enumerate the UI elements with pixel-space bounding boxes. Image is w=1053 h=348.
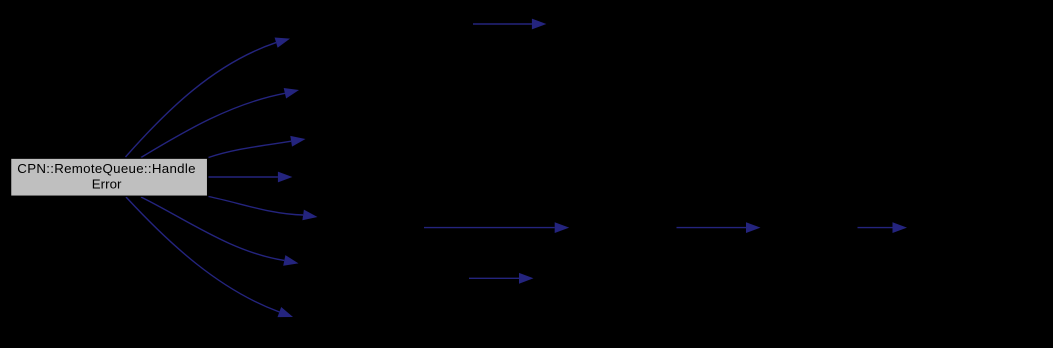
arrowhead S4 (893, 222, 908, 233)
arrowhead E6 (283, 255, 298, 266)
arrowhead E1 (275, 38, 290, 48)
arrowhead S5 (519, 273, 534, 284)
edge S5 line (469, 277, 519, 279)
node box CPN::RemoteQueue::HandleError (11, 158, 208, 196)
edge E2 curve (141, 93, 285, 157)
arrowhead S3 (746, 222, 761, 233)
svg-text:Error: Error (92, 176, 122, 191)
edge E4 line (209, 176, 278, 178)
svg-text:CPN::RemoteQueue::Handle: CPN::RemoteQueue::Handle (17, 161, 195, 176)
arrowhead E5 (302, 210, 317, 221)
edge S3 line (677, 227, 747, 229)
edge S4 line (858, 227, 893, 229)
arrowhead S2 (555, 222, 570, 233)
arrowhead E2 (284, 88, 299, 99)
edge S2 line (424, 227, 555, 229)
edge E5 curve (209, 197, 304, 216)
edge E3 curve (209, 141, 292, 157)
edge E1 curve (126, 43, 277, 157)
edge S1 line (473, 23, 532, 25)
arrowhead S1 (532, 19, 547, 30)
edge E7 curve (126, 197, 279, 312)
arrowhead E3 (290, 136, 305, 147)
edge E6 curve (141, 197, 284, 260)
arrowhead E7 (278, 307, 294, 317)
arrowhead E4 (278, 172, 293, 183)
